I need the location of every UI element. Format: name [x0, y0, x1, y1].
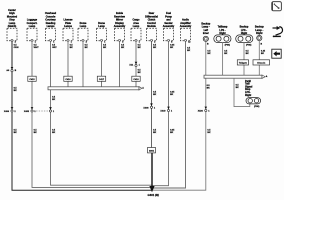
svg-text:Lamp: Lamp: [80, 25, 87, 28]
connector C1 Center High Mounted Stop Lamp: [7, 9, 18, 44]
svg-text:BK: BK: [138, 72, 142, 74]
connector C7 Inside Rearview Mirror: [114, 12, 126, 43]
svg-text:Assembly: Assembly: [180, 25, 192, 28]
inline connector on W1 (A6 / B): [6, 67, 16, 72]
svg-text:BK: BK: [153, 94, 157, 96]
wire W14 (E3 to bus G2): [244, 43, 249, 76]
svg-text:Tailgate: Tailgate: [239, 62, 248, 65]
svg-text:BK: BK: [70, 47, 74, 49]
connector circle X408 on W9: [143, 103, 157, 134]
svg-text:BK: BK: [236, 87, 240, 89]
splice box on W2: [28, 76, 36, 81]
svg-text:(P86): (P86): [254, 106, 260, 108]
svg-text:BK: BK: [153, 47, 157, 49]
svg-text:Chassis: Chassis: [257, 63, 266, 65]
svg-text:C417: C417: [99, 78, 105, 81]
splice box on W8: [132, 76, 140, 81]
svg-text:Lamps: Lamps: [47, 25, 56, 28]
svg-text:BK: BK: [170, 132, 174, 134]
connector circle X404 on W1: [4, 107, 18, 134]
svg-text:X404: X404: [4, 110, 10, 113]
wire W2 (C2 down to ground): [32, 41, 152, 187]
wire W3 (C3 through bus down to ground): [51, 41, 153, 185]
svg-text:Assembly: Assembly: [114, 25, 126, 28]
connector C9 Rear Differential Clutch Control Module: [145, 12, 158, 43]
svg-text:G401 (M): G401 (M): [148, 193, 159, 197]
svg-text:C416: C416: [65, 78, 71, 81]
svg-text:Inner: Inner: [203, 32, 209, 35]
ground G401 arrow: [148, 186, 159, 197]
lamp E1 Backup Lamp Left: [201, 22, 210, 45]
wire W7 (C7 to bus G1): [120, 41, 125, 87]
svg-text:GRY: GRY: [52, 47, 57, 49]
svg-text:BK: BK: [138, 47, 142, 49]
connector C6 Dome Lamp: [97, 22, 107, 44]
svg-text:BK: BK: [103, 47, 107, 49]
svg-text:(P86): (P86): [246, 44, 252, 46]
svg-text:BK: BK: [85, 47, 89, 49]
svg-text:(Hatch): (Hatch): [8, 25, 17, 28]
svg-text:BK: BK: [34, 132, 38, 134]
svg-text:BK: BK: [170, 47, 174, 49]
svg-text:BK: BK: [207, 53, 211, 55]
svg-text:Lamps: Lamps: [64, 25, 73, 28]
splice S301 box on W9: [148, 148, 156, 153]
connector circle on W3 with dashed tie to W2: [34, 107, 56, 134]
inline connector on W8 (X11): [129, 62, 140, 67]
connector C2 Luggage Compartment Lamp: [27, 19, 38, 44]
wire W13 (E2 to bus G2): [223, 43, 228, 76]
wire W10 (C10 down to ground): [152, 41, 175, 185]
svg-text:BK: BK: [153, 132, 157, 134]
wire W12 (lamp E1 through bus G2 down to ground): [152, 41, 211, 190]
connector C11 Audio Amplifier: [180, 19, 192, 44]
svg-text:X405: X405: [24, 110, 30, 113]
svg-text:BK: BK: [52, 132, 56, 134]
lamp E2 Taillamp Right (oval with two bulbs): [214, 26, 231, 47]
svg-text:Right: Right: [245, 94, 251, 97]
splice box on W4: [64, 76, 72, 81]
connector box on W15: [253, 60, 270, 65]
svg-text:WHT: WHT: [34, 47, 40, 49]
wire W11 (C11 down to ground): [152, 41, 191, 188]
wire W16 (bus G2 down to E5 lamp): [234, 78, 250, 106]
svg-text:BK: BK: [187, 50, 191, 52]
svg-text:C415: C415: [29, 78, 35, 81]
svg-text:S301: S301: [149, 150, 155, 152]
svg-text:BK: BK: [207, 132, 211, 134]
svg-text:BK: BK: [14, 132, 18, 134]
connector box on W14: [237, 60, 248, 65]
svg-text:ORN: ORN: [14, 47, 19, 49]
connector C8 Cargo Lamp: [131, 19, 141, 44]
svg-text:Lamp: Lamp: [98, 25, 105, 28]
lamp E3 Backup Lamp Right (oval with two bulbs): [236, 26, 253, 47]
ground stub and splice junction: [151, 153, 153, 186]
svg-text:C418: C418: [133, 78, 139, 81]
svg-text:BK: BK: [224, 53, 228, 55]
svg-text:BK: BK: [261, 53, 265, 55]
svg-text:Lamp: Lamp: [133, 25, 140, 28]
connector C10 Fuel Pump and Sender Assembly: [163, 12, 175, 43]
icon: continuation S-arrow: [273, 26, 283, 37]
connector circle X426 on W12: [198, 107, 212, 134]
svg-text:(P86): (P86): [225, 44, 231, 46]
svg-text:Assembly: Assembly: [163, 25, 175, 28]
icon: cursor box top right: [272, 2, 282, 11]
lamp E5 Park/Tail/Stop Lamps Right: [245, 80, 261, 108]
wire W9 (C9 down to splice and ground, black below): [152, 41, 157, 147]
svg-text:BK: BK: [246, 53, 250, 55]
connector C4 License Plate Lamps: [63, 19, 73, 44]
connector circle on W2: [24, 107, 38, 134]
ground bus G1 (left): [48, 87, 144, 91]
svg-text:X408: X408: [143, 106, 149, 109]
wire W5 (C5 to bus G1): [83, 41, 88, 87]
svg-text:BK: BK: [207, 87, 211, 89]
icon: left arrow box: [272, 49, 281, 58]
splice box on W6: [97, 76, 105, 81]
wire W6 (C6 to bus G1): [102, 41, 107, 87]
svg-text:Module: Module: [147, 25, 156, 28]
ground bus G2 (right): [204, 75, 268, 78]
lamp E4 Backup Lamp Right: [255, 26, 264, 46]
connector C3 Overhead Console: [45, 12, 57, 43]
svg-text:Lamp: Lamp: [29, 25, 36, 28]
svg-text:Right: Right: [256, 32, 262, 35]
svg-text:X426: X426: [198, 110, 204, 113]
svg-text:BK: BK: [52, 99, 56, 101]
svg-text:BK: BK: [170, 94, 174, 96]
svg-text:BK: BK: [14, 90, 18, 92]
connector C5 Dome Lamp: [78, 22, 88, 44]
connector circle X440 on W10: [160, 107, 175, 134]
wire W1 (C1 down to ground, black): [12, 41, 152, 190]
wire W4 (C4 to bus G1): [68, 41, 73, 87]
wire W8 (C8 to bus G1): [136, 41, 141, 87]
svg-text:X440: X440: [160, 110, 166, 113]
wire W15 (E4 to bus G2): [259, 41, 266, 76]
svg-text:BK: BK: [121, 47, 125, 49]
